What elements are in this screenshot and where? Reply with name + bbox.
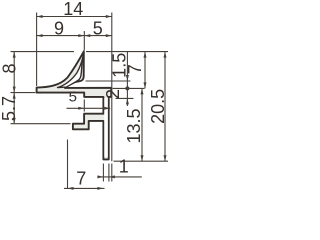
ext wall B top left (11, 123, 71, 125)
ext bar top right (113, 87, 145, 89)
svg-text:1: 1 (119, 157, 129, 177)
svg-text:5: 5 (69, 89, 77, 106)
arrows 9/5 (37, 34, 43, 37)
arrows 14 (37, 15, 43, 18)
arrow 1.5 down to foot ext (126, 75, 129, 81)
extension line left of 14/9 (36, 13, 38, 87)
left dim line 8 / 5.7 (13, 52, 15, 124)
svg-text:7: 7 (125, 64, 145, 74)
ext bottom right (114, 160, 169, 162)
svg-text:2: 2 (103, 89, 123, 99)
arrows 5.7 (13, 93, 16, 99)
arrows 1 bottom outside pair (97, 175, 103, 178)
svg-text:9: 9 (54, 19, 64, 39)
ext leg left down (102, 164, 104, 182)
slit gap between fin and J-stub (58, 54, 84, 87)
svg-text:14: 14 (63, 0, 83, 19)
dim line 20.5 (164, 52, 166, 162)
dim line 1.5 (126, 52, 128, 89)
arrows 7 right (144, 52, 147, 58)
svg-text:8: 8 (0, 63, 19, 73)
extension line 9|5 split (83, 31, 85, 51)
ext stub foot level right (86, 80, 131, 82)
svg-text:5: 5 (93, 19, 103, 39)
extension line right of 14/5, long down (111, 13, 113, 162)
dim line 7 right (144, 52, 146, 89)
dim line 9 and 5 (37, 35, 112, 37)
arrows 13.5 (141, 88, 144, 94)
arrows 8 (13, 52, 16, 58)
svg-text:20.5: 20.5 (148, 89, 168, 124)
ext wall B left down (67, 140, 69, 190)
ext bar bottom right (116, 97, 134, 99)
svg-text:5.7: 5.7 (0, 96, 19, 121)
ext apex level right (86, 51, 168, 53)
ext bar bottom left (11, 92, 36, 94)
svg-text:7: 7 (76, 168, 86, 188)
svg-text:13.5: 13.5 (124, 108, 144, 143)
dim line 13.5 (141, 88, 143, 161)
dim line 14 (37, 16, 112, 18)
arrows 20.5 (164, 52, 167, 58)
leader line 1 (98, 176, 142, 178)
dim line 5 mid (67, 107, 111, 109)
arrows 7 bottom inside-left (68, 187, 74, 190)
hollow channel inside leg (104, 98, 108, 157)
ext apex level left (11, 51, 75, 53)
arrows 5 mid (78, 107, 84, 110)
arrow 2 up (126, 98, 129, 104)
ext x84.3 below bar (83, 99, 85, 111)
profile body: bar + curved fin + J-stub + hook crank walls + hollow leg (37, 51, 112, 159)
dim line 2 (126, 88, 128, 106)
dot shared 1.5 / 2 (125, 86, 129, 90)
dim line 7 and 1 bottom (64, 187, 105, 189)
